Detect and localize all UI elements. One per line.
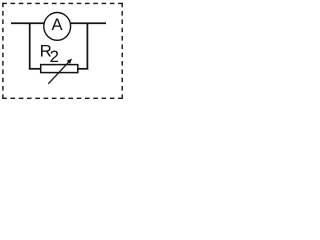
dashed enclosure border bottom (2, 97, 123, 99)
rheostat R2 body (41, 65, 78, 73)
svg-text:A: A (51, 15, 63, 34)
dashed enclosure border right (121, 3, 123, 99)
wire: bottom-left into rheostat (29, 68, 41, 70)
wire: rheostat to bottom-right (77, 68, 88, 70)
rheostat arrow shaft (48, 61, 69, 84)
wire: left vertical drop (29, 23, 31, 70)
wire: ammeter to top-right lead (70, 22, 106, 24)
dashed enclosure border left (2, 3, 4, 99)
rheostat arrowhead (67, 59, 72, 64)
dashed enclosure border top (2, 2, 123, 4)
svg-text:2: 2 (50, 47, 59, 66)
wire: top-left lead to ammeter (11, 22, 45, 24)
ammeter circle (44, 13, 71, 41)
wire: right vertical drop (86, 23, 88, 70)
